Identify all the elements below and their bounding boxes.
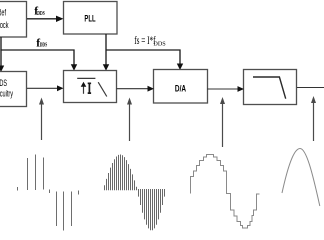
wire interpolator to D/A (117, 86, 155, 92)
svg-text:D/A: D/A (175, 83, 186, 93)
block interpolator upsample-by-I with filter (64, 71, 117, 103)
svg-text:Circuitry: Circuitry (0, 88, 13, 99)
waveform 4 smooth filtered sine (282, 148, 320, 206)
block Ref Clock (0, 2, 27, 38)
svg-text:DDS: DDS (0, 78, 7, 89)
wire fDDS net from Ref Clock (0, 37, 77, 72)
svg-text:PLL: PLL (84, 13, 95, 24)
block DDS Circuitry (0, 72, 27, 107)
wire D/A to low-pass filter (207, 86, 244, 92)
label fs = I*fDDS (134, 34, 166, 47)
block PLL U1 (64, 2, 118, 35)
svg-text:DDS: DDS (153, 40, 166, 47)
wire filter output (297, 87, 324, 89)
pointer arrow waveform 1 (39, 98, 44, 141)
pointer arrow waveform 3 (220, 97, 225, 147)
pointer arrow waveform 2 (127, 98, 132, 142)
label fDDS top (34, 6, 45, 18)
waveform 2 dense interpolated sine impulses (105, 155, 165, 231)
label fDDS middle (36, 37, 47, 49)
wire fs net from PLL (103, 34, 183, 71)
wire Ref Clock to PLL (27, 16, 64, 22)
waveform 3 staircase D/A output sine (191, 155, 260, 229)
svg-text:DDS: DDS (40, 42, 48, 49)
block D/A converter (154, 70, 208, 104)
svg-text:DDS: DDS (37, 10, 45, 17)
wire DDS Circuitry to interpolator (27, 85, 64, 91)
svg-text:Clock: Clock (0, 19, 9, 30)
pointer arrow waveform 4 (311, 96, 316, 141)
waveform 1 sparse sampled sine impulses (18, 155, 79, 231)
svg-text:Ref: Ref (0, 7, 7, 18)
block low-pass filter (244, 70, 297, 105)
